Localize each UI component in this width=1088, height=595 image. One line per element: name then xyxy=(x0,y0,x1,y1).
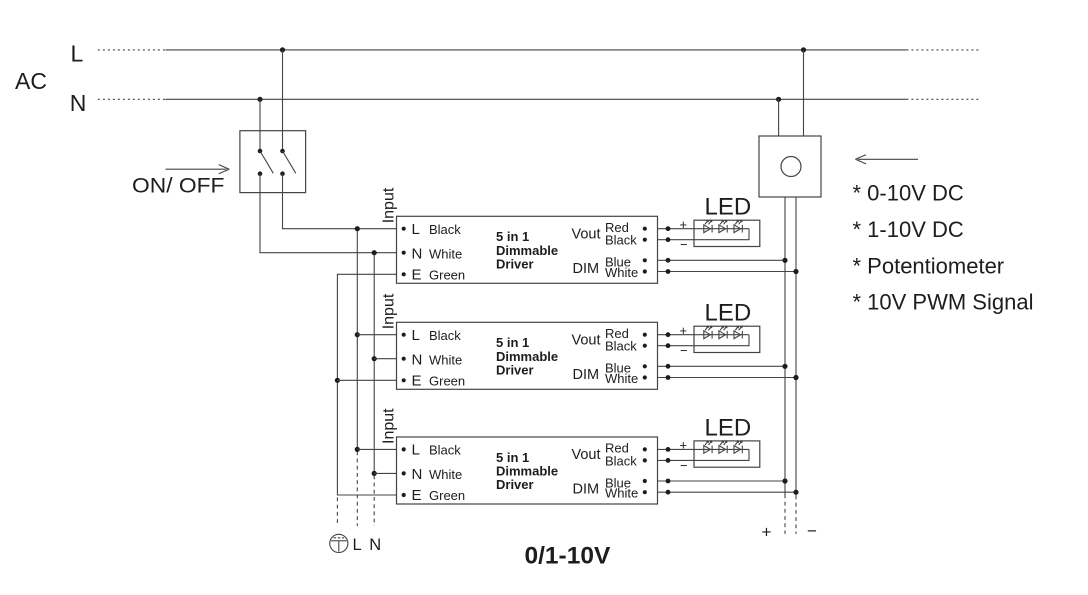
LED D32 emission arrows xyxy=(720,441,723,445)
LED D32 xyxy=(719,446,726,454)
svg-text:N: N xyxy=(70,90,87,116)
svg-text:Vout: Vout xyxy=(572,226,601,242)
LED D33 xyxy=(734,446,741,454)
wire driver U3 DIM- white to bus xyxy=(658,491,797,493)
wire N line dotted left xyxy=(98,98,165,100)
wire driver U3 DIM+ blue to bus xyxy=(658,480,786,482)
wire L line solid xyxy=(165,49,906,51)
arrow to dimmer xyxy=(855,155,918,164)
svg-text:L: L xyxy=(71,40,84,66)
svg-text:E: E xyxy=(412,487,422,504)
svg-text:White: White xyxy=(429,352,462,367)
node E bus driver2 xyxy=(335,378,340,383)
wire DIM+ bus dashed tail xyxy=(784,495,786,534)
node N-line to switch junction xyxy=(257,97,262,102)
svg-text:L: L xyxy=(412,442,420,459)
svg-text:−: − xyxy=(680,343,688,358)
node DIM- bus junction U2 xyxy=(793,375,798,380)
LED module 2 box xyxy=(694,326,760,352)
switch pole 2 blade xyxy=(283,151,296,173)
wire L line down to dimmer xyxy=(803,50,805,136)
driver U3 pin E xyxy=(402,493,406,497)
svg-text:−: − xyxy=(807,522,817,541)
driver U2 pin L xyxy=(402,333,406,337)
wire driver U1 DIM+ blue to bus xyxy=(658,259,786,261)
svg-text:0/1-10V: 0/1-10V xyxy=(525,542,611,569)
svg-text:* Potentiometer: * Potentiometer xyxy=(853,254,1005,279)
svg-text:Black: Black xyxy=(429,222,461,237)
svg-text:+: + xyxy=(680,438,688,453)
svg-text:DIM: DIM xyxy=(573,367,600,383)
driver U3 box xyxy=(397,437,658,504)
svg-text:Input: Input xyxy=(381,293,398,329)
svg-text:Vout: Vout xyxy=(572,447,601,463)
node DIM+ bus junction U2 xyxy=(782,364,787,369)
svg-text:5 in 1: 5 in 1 xyxy=(496,229,529,244)
node N bus driver2 xyxy=(372,356,377,361)
LED D11 xyxy=(704,225,711,233)
LED D31 emission arrows xyxy=(705,441,708,445)
svg-text:Driver: Driver xyxy=(496,477,534,492)
node DIM+ bus junction U3 xyxy=(782,478,787,483)
node DIM- bus junction U1 xyxy=(793,269,798,274)
svg-text:5 in 1: 5 in 1 xyxy=(496,335,529,350)
svg-text:5 in 1: 5 in 1 xyxy=(496,450,529,465)
svg-text:White: White xyxy=(605,486,638,501)
wire N line solid xyxy=(165,98,906,100)
svg-text:E: E xyxy=(412,267,422,284)
svg-text:* 10V PWM Signal: * 10V PWM Signal xyxy=(853,290,1034,315)
node L bus driver3 xyxy=(355,447,360,452)
LED D13 xyxy=(734,225,741,233)
svg-text:E: E xyxy=(412,373,422,390)
svg-text:L: L xyxy=(353,536,362,554)
node L-line to dimmer junction xyxy=(801,47,806,52)
wire L bus to driver2 xyxy=(357,334,403,336)
LED D12 emission arrows xyxy=(720,220,723,224)
wire driver U2 DIM- white to bus xyxy=(658,377,797,379)
node L bus driver1 xyxy=(355,226,360,231)
svg-text:Green: Green xyxy=(429,374,465,389)
LED D13 emission arrows xyxy=(735,220,738,224)
wire E bus dashed tail xyxy=(336,498,338,527)
LED D22 emission arrows xyxy=(720,326,723,330)
switch pole 2 contacts xyxy=(280,149,285,154)
switch pole 1 blade xyxy=(260,151,273,173)
wire driver U3 Vout- black return xyxy=(658,449,750,460)
wire driver U3 Vout+ red to LED xyxy=(658,448,750,450)
svg-text:Black: Black xyxy=(429,443,461,458)
driver U3 pin N xyxy=(402,471,406,475)
switch S1 box xyxy=(240,131,306,193)
svg-text:White: White xyxy=(429,467,462,482)
node N bus driver3 xyxy=(372,471,377,476)
svg-text:N: N xyxy=(369,536,381,554)
svg-text:Green: Green xyxy=(429,488,465,503)
node L bus driver2 xyxy=(355,332,360,337)
svg-text:−: − xyxy=(680,458,688,473)
wire driver U1 DIM- white to bus xyxy=(658,271,797,273)
wire driver U1 Vout+ red to LED xyxy=(658,228,750,230)
wire driver U1 Vout- black return xyxy=(658,229,750,240)
wire N bus dashed tail xyxy=(373,475,375,526)
svg-text:Black: Black xyxy=(429,328,461,343)
svg-text:LED: LED xyxy=(705,300,752,327)
driver U3 pin L xyxy=(402,447,406,451)
wire N bus vertical xyxy=(373,253,375,474)
wire E bus vertical xyxy=(337,274,403,495)
svg-text:N: N xyxy=(412,351,423,368)
wire DIM- bus vertical xyxy=(795,197,797,496)
svg-text:* 1-10V DC: * 1-10V DC xyxy=(853,217,964,242)
LED D22 xyxy=(719,331,726,339)
node DIM+ bus junction U1 xyxy=(782,258,787,263)
svg-text:−: − xyxy=(680,237,688,252)
svg-text:Black: Black xyxy=(605,339,637,354)
svg-text:White: White xyxy=(429,246,462,261)
wire N line down to switch xyxy=(259,99,261,151)
svg-text:L: L xyxy=(412,327,420,344)
svg-text:+: + xyxy=(762,523,772,542)
wire L line dotted left xyxy=(98,49,165,51)
svg-text:L: L xyxy=(412,221,420,238)
arrow to switch xyxy=(166,165,230,174)
wire driver U2 DIM+ blue to bus xyxy=(658,365,786,367)
wire driver U2 Vout- black return xyxy=(658,335,750,346)
LED D21 emission arrows xyxy=(705,326,708,330)
driver U2 pin E xyxy=(402,378,406,382)
svg-text:Green: Green xyxy=(429,268,465,283)
wire N bus to driver2 xyxy=(374,358,404,360)
wire L bus vertical xyxy=(356,229,358,450)
wire L bus to driver3 xyxy=(357,448,403,450)
svg-text:White: White xyxy=(605,265,638,280)
node N bus driver1 xyxy=(372,250,377,255)
wire L line dotted right xyxy=(906,49,979,51)
LED D33 emission arrows xyxy=(735,441,738,445)
svg-text:N: N xyxy=(412,466,423,483)
svg-text:+: + xyxy=(680,323,688,338)
wire DIM- bus dashed tail xyxy=(795,496,797,534)
wire N line down to dimmer xyxy=(778,99,780,136)
svg-text:+: + xyxy=(680,217,688,232)
node L-line to switch junction xyxy=(280,47,285,52)
wire N bus to driver3 xyxy=(374,472,404,474)
svg-text:DIM: DIM xyxy=(573,261,600,277)
LED D21 xyxy=(704,331,711,339)
node DIM- bus junction U3 xyxy=(793,490,798,495)
LED D11 emission arrows xyxy=(705,220,708,224)
LED D23 xyxy=(734,331,741,339)
svg-text:Vout: Vout xyxy=(572,332,601,348)
wire switch pole2 output to driver1 L xyxy=(283,174,404,229)
wire N line dotted right xyxy=(906,98,979,100)
LED D12 xyxy=(719,225,726,233)
wire E bus to driver2 xyxy=(337,379,403,381)
svg-text:ON/ OFF: ON/ OFF xyxy=(132,175,225,198)
wire driver U2 Vout+ red to LED xyxy=(658,334,750,336)
switch pole 1 contacts xyxy=(258,149,263,154)
wire switch pole1 output to driver1 N xyxy=(260,174,404,253)
wire L line down to switch xyxy=(282,50,284,151)
svg-text:Black: Black xyxy=(605,233,637,248)
svg-text:DIM: DIM xyxy=(573,482,600,498)
svg-text:Black: Black xyxy=(605,453,637,468)
svg-text:Input: Input xyxy=(381,187,398,223)
driver U2 pin N xyxy=(402,357,406,361)
driver U1 pin N xyxy=(402,251,406,255)
svg-text:AC: AC xyxy=(15,68,47,94)
svg-text:LED: LED xyxy=(705,414,752,441)
wire DIM+ bus vertical xyxy=(784,197,786,495)
svg-text:LED: LED xyxy=(705,194,752,221)
svg-text:Input: Input xyxy=(381,408,398,444)
svg-text:Driver: Driver xyxy=(496,257,534,272)
dimmer knob xyxy=(781,157,801,177)
svg-text:N: N xyxy=(412,245,423,262)
LED D31 xyxy=(704,446,711,454)
wire L bus dashed tail xyxy=(356,451,358,526)
driver U1 box xyxy=(397,216,658,283)
svg-text:Driver: Driver xyxy=(496,363,534,378)
svg-text:White: White xyxy=(605,371,638,386)
LED D23 emission arrows xyxy=(735,326,738,330)
driver U1 pin E xyxy=(402,272,406,276)
LED module 1 box xyxy=(694,220,760,246)
driver U2 box xyxy=(397,322,658,389)
driver U1 pin L xyxy=(402,227,406,231)
node N-line to dimmer junction xyxy=(776,97,781,102)
LED module 3 box xyxy=(694,441,760,467)
dimmer box xyxy=(759,136,821,197)
svg-text:* 0-10V DC: * 0-10V DC xyxy=(853,181,964,206)
ground symbol (protective earth) xyxy=(330,534,348,552)
